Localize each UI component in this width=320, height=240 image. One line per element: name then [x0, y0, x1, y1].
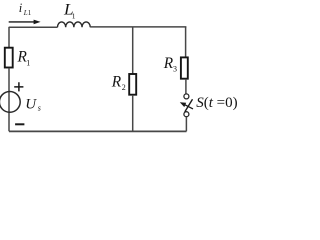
svg-text:2: 2	[122, 83, 126, 92]
svg-text:s: s	[38, 103, 41, 112]
svg-text:U: U	[25, 97, 37, 113]
svg-text:R: R	[111, 74, 122, 91]
svg-text:3: 3	[173, 64, 177, 73]
svg-text:i: i	[19, 1, 23, 15]
svg-text:1: 1	[72, 11, 76, 20]
svg-text:1: 1	[26, 58, 30, 67]
svg-text:1: 1	[28, 9, 32, 17]
svg-text:S(t =0): S(t =0)	[196, 95, 237, 111]
